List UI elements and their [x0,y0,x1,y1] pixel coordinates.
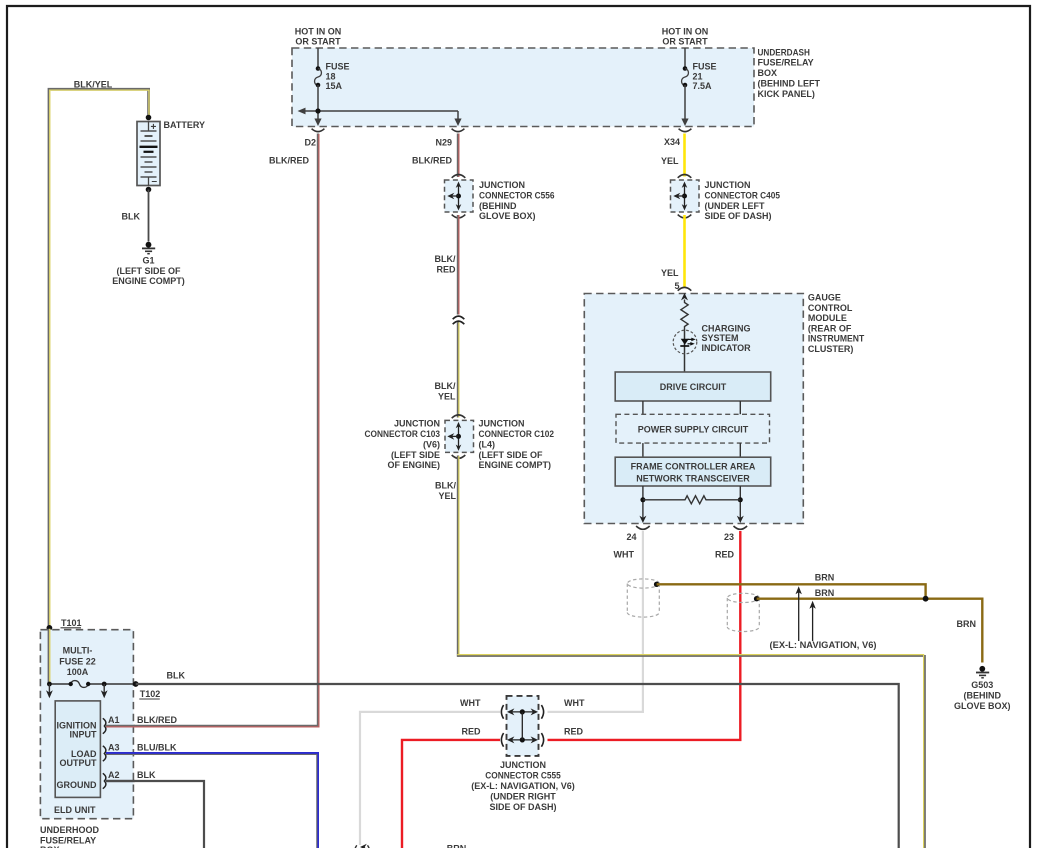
node battery negative terminal [146,187,152,193]
svg-text:SYSTEM: SYSTEM [702,333,739,343]
wire BLK/YEL from inline connector to junction connector C102 [457,322,460,418]
gauge control module box [584,294,803,524]
svg-text:(UNDER LEFT: (UNDER LEFT [705,201,765,211]
svg-text:CONNECTOR C102: CONNECTOR C102 [479,429,555,439]
arrowhead exit 24 [639,516,646,523]
svg-text:BRN: BRN [815,588,835,598]
svg-text:SIDE OF DASH): SIDE OF DASH) [705,211,772,221]
svg-text:FUSE 22: FUSE 22 [59,656,96,666]
terminating resistor between CAN lines [643,496,740,504]
wire YEL from C405 to gauge module pin 5 [683,215,686,287]
svg-text:(BEHIND: (BEHIND [964,691,1002,701]
svg-text:(LEFT SIDE OF: (LEFT SIDE OF [117,266,182,276]
svg-text:ENGINE COMPT): ENGINE COMPT) [479,460,552,470]
arrowhead exit X34 [681,119,688,127]
ground G503 [954,666,1011,711]
wire BLU/BLK stub from pin A3 [106,753,135,754]
svg-text:INPUT: INPUT [70,730,98,740]
wire BRN shield 2 to ground G503 [757,599,983,663]
svg-text:(BEHIND LEFT: (BEHIND LEFT [758,79,821,89]
wire BLK stub from pin A2 [106,780,135,782]
wires power supply to CAN transceiver [642,443,644,457]
node battery positive terminal [146,115,152,121]
connector exit N29 arc [452,129,465,132]
wire BLK/RED from N29 to junction connector C556 [457,134,460,178]
arrow down from bus right [101,684,108,698]
node BRN junction [923,596,929,602]
wire WHT from C555 left then down to page bottom [360,712,500,845]
battery [137,122,160,188]
svg-text:YEL: YEL [661,268,679,278]
svg-text:23: 23 [724,532,734,542]
wire BLK/YEL battery feed [49,89,149,684]
node fuse18 bus junction [315,108,320,113]
wire BLK/RED from C556 down to inline connector [457,215,460,315]
wire BLK/YEL horizontal run to page bottom right [457,655,925,848]
wire WHT pin 24 down to C555 row [548,531,643,712]
pin A2 symbol [103,773,106,788]
svg-text:RED: RED [715,550,735,560]
svg-text:JUNCTION: JUNCTION [394,419,440,429]
wire BLK/RED from D2 down to ELD A1 [106,134,319,727]
svg-text:OR START: OR START [295,36,341,46]
svg-text:18: 18 [326,71,336,81]
svg-text:UNDERHOOD: UNDERHOOD [40,825,100,835]
svg-text:GLOVE BOX): GLOVE BOX) [479,211,536,221]
svg-text:BLK/: BLK/ [435,254,456,264]
node shield 2 drain [754,596,759,601]
svg-text:A3: A3 [108,743,120,753]
svg-text:ELD UNIT: ELD UNIT [54,805,96,815]
svg-text:FUSE: FUSE [326,62,350,72]
svg-text:24: 24 [626,532,636,542]
svg-text:(UNDER RIGHT: (UNDER RIGHT [490,791,556,801]
wire BLK/YEL from C102 down to corner [457,456,460,657]
svg-text:WHT: WHT [564,698,585,708]
svg-text:BLK/RED: BLK/RED [269,156,309,166]
underhood fuse/relay box [40,630,133,819]
label JUNCTION CONNECTOR C405 (UNDER LEFT SIDE OF DASH) [705,180,781,221]
svg-text:HOT IN ON: HOT IN ON [295,27,342,37]
fuse 18 15A [315,48,350,124]
node CAN right [738,497,743,502]
svg-text:MODULE: MODULE [808,313,847,323]
svg-text:21: 21 [693,71,703,81]
wire BLK/RED stub from pin A1 [106,725,135,728]
ELD unit block [55,701,100,798]
svg-text:BLK: BLK [167,670,186,680]
svg-text:JUNCTION: JUNCTION [500,760,546,770]
svg-text:A1: A1 [108,715,120,725]
wire RED from C555 left then down to page bottom [402,740,500,848]
svg-text:100A: 100A [67,667,89,677]
svg-text:CHARGING: CHARGING [702,323,751,333]
label T101 (underlined) [61,618,82,628]
resistor below pin 5 [681,300,688,330]
arrowhead entering pin 5 [681,293,688,300]
svg-text:WHT: WHT [460,698,481,708]
connector exit 24 arc [636,526,650,529]
svg-text:GLOVE BOX): GLOVE BOX) [954,701,1011,711]
svg-text:INSTRUMENT: INSTRUMENT [808,334,865,344]
connector exit 23 arc [734,526,748,529]
wire BLK from A2 right then down to page bottom [106,781,204,848]
label CHARGING SYSTEM INDICATOR [702,323,752,353]
svg-text:G503: G503 [971,680,993,690]
svg-text:BLK/RED: BLK/RED [137,715,177,725]
arrow down from bus left [46,684,53,698]
svg-text:(REAR OF: (REAR OF [808,323,852,333]
multi-fuse 22 element [47,681,136,688]
svg-text:CLUSTER): CLUSTER) [808,344,854,354]
power supply circuit block [616,414,770,443]
connector exit X34 arc [679,129,692,132]
svg-text:+: + [151,122,157,133]
label T102 (underlined) [139,689,160,699]
svg-text:(BEHIND: (BEHIND [479,201,517,211]
wire BLK/YEL segment inside underhood box [48,629,52,684]
wire YEL from X34 to junction connector C405 [683,134,686,177]
svg-text:–: – [152,176,158,187]
svg-text:CONTROL: CONTROL [808,303,853,313]
node T102 [133,681,139,687]
svg-text:OUTPUT: OUTPUT [60,758,98,768]
svg-text:NETWORK TRANSCEIVER: NETWORK TRANSCEIVER [636,474,750,484]
label IGNITION INPUT [57,720,98,739]
label JUNCTION CONNECTOR C102 (L4) (LEFT SIDE OF ENGINE COMPT) [479,419,555,471]
svg-text:BRN: BRN [447,844,467,848]
junction connector C102/C103 [445,415,474,458]
svg-text:(LEFT SIDE: (LEFT SIDE [391,450,440,460]
wire fuse box internal bus with left arrow [298,108,459,124]
shield cylinder around WHT wire [627,579,659,617]
arrowhead exit 23 [737,516,744,523]
frame controller area network transceiver block [615,457,771,486]
pin A3 symbol [103,746,106,761]
svg-text:CONNECTOR C556: CONNECTOR C556 [479,190,555,200]
svg-text:GROUND: GROUND [57,780,97,790]
wire RED pin 23 down to C555 row [548,531,741,740]
svg-text:(EX-L: NAVIGATION, V6): (EX-L: NAVIGATION, V6) [770,640,877,650]
svg-text:OF ENGINE): OF ENGINE) [387,460,440,470]
svg-text:YEL: YEL [661,156,679,166]
option arrow 2 (EX-L) [809,601,815,641]
svg-text:(LEFT SIDE OF: (LEFT SIDE OF [479,450,544,460]
wires CAN transceiver to pins 24 and 23 [642,486,644,521]
inline connector (double arc) [453,316,465,324]
svg-text:BLK/: BLK/ [435,481,456,491]
svg-text:SIDE OF DASH): SIDE OF DASH) [489,802,556,812]
svg-text:X34: X34 [664,137,680,147]
svg-text:DRIVE CIRCUIT: DRIVE CIRCUIT [660,382,727,392]
svg-text:KICK PANEL): KICK PANEL) [758,89,815,99]
svg-text:RED: RED [436,264,456,274]
svg-text:CONNECTOR C103: CONNECTOR C103 [365,429,441,439]
svg-text:BLK/: BLK/ [435,381,456,391]
svg-text:N29: N29 [435,138,452,148]
arrowhead exit D2 [314,119,321,127]
connector entry pin 5 arc [678,287,692,290]
svg-text:T102: T102 [140,689,161,699]
label LOAD OUTPUT [60,749,98,768]
svg-text:FUSE: FUSE [693,62,717,72]
svg-text:FUSE/RELAY: FUSE/RELAY [40,835,96,845]
wire BRN shield 1 to junction [657,584,926,598]
svg-text:7.5A: 7.5A [693,81,713,91]
svg-text:HOT IN ON: HOT IN ON [662,27,709,37]
drive circuit block [615,372,771,401]
wires drive to power supply [642,401,644,414]
svg-text:ENGINE COMPT): ENGINE COMPT) [112,276,185,286]
wire BLU/BLK from A3 right then down to page bottom [106,753,318,848]
svg-text:G1: G1 [142,255,154,265]
shield cylinder around RED wire [727,593,759,631]
svg-text:FUSE/RELAY: FUSE/RELAY [758,58,814,68]
svg-text:(L4): (L4) [479,439,496,449]
svg-text:A2: A2 [108,770,120,780]
svg-text:CONNECTOR C555: CONNECTOR C555 [485,771,561,781]
svg-text:BLK/YEL: BLK/YEL [74,80,113,90]
svg-text:D2: D2 [304,138,316,148]
svg-text:YEL: YEL [438,391,456,401]
svg-text:JUNCTION: JUNCTION [479,419,525,429]
svg-text:WHT: WHT [614,550,635,560]
pin A1 symbol [103,718,106,733]
svg-text:BRN: BRN [815,572,835,582]
svg-text:BATTERY: BATTERY [164,120,206,130]
svg-text:JUNCTION: JUNCTION [479,180,525,190]
junction connector C405 [671,175,700,218]
svg-text:INDICATOR: INDICATOR [702,343,752,353]
fuse 21 7.5A [682,48,717,124]
underdash fuse/relay box [292,48,754,127]
svg-text:15A: 15A [326,81,343,91]
wire to indicator [684,329,686,372]
svg-text:JUNCTION: JUNCTION [705,180,751,190]
svg-text:RED: RED [564,726,584,736]
inline connector at bottom of WHT wire [355,844,370,848]
svg-text:CONNECTOR C405: CONNECTOR C405 [705,190,781,200]
node CAN left [640,497,645,502]
svg-text:(V6): (V6) [423,439,440,449]
svg-text:MULTI-: MULTI- [63,646,93,656]
charging system indicator LED [673,330,697,354]
node T101 [47,625,53,631]
ground G1 [112,242,185,286]
wire BLK battery to ground [148,190,150,242]
svg-text:POWER SUPPLY CIRCUIT: POWER SUPPLY CIRCUIT [638,425,749,435]
svg-text:BOX: BOX [758,68,778,78]
svg-text:BLK/RED: BLK/RED [412,156,452,166]
label UNDERDASH FUSE/RELAY BOX (BEHIND LEFT KICK PANEL) [758,47,821,99]
svg-text:FRAME CONTROLLER AREA: FRAME CONTROLLER AREA [631,461,756,471]
svg-text:T101: T101 [61,618,82,628]
label JUNCTION CONNECTOR C103 (V6) (LEFT SIDE OF ENGINE) [365,419,441,471]
label MULTI-FUSE 22 100A [59,646,96,678]
node shield 1 drain [654,582,659,587]
label JUNCTION CONNECTOR C555 (EX-L: NAVIGATION, V6) (UNDER RIGHT SIDE OF DASH) [471,760,575,812]
svg-text:YEL: YEL [438,491,456,501]
label JUNCTION CONNECTOR C556 (BEHIND GLOVE BOX) [479,180,555,221]
label UNDERHOOD FUSE/RELAY BOX [40,825,100,848]
svg-text:BRN: BRN [957,619,977,629]
svg-text:RED: RED [461,726,481,736]
svg-text:UNDERDASH: UNDERDASH [758,47,810,57]
svg-text:BLU/BLK: BLU/BLK [137,742,177,752]
junction connector C555 [501,696,543,756]
wire BLK from T102 across page and down [136,684,899,848]
svg-text:BLK: BLK [137,770,156,780]
svg-text:OR START: OR START [662,36,708,46]
svg-text:(EX-L: NAVIGATION, V6): (EX-L: NAVIGATION, V6) [471,781,575,791]
svg-text:GAUGE: GAUGE [808,293,841,303]
arrowhead exit N29 [454,119,461,127]
label GAUGE CONTROL MODULE (REAR OF INSTRUMENT CLUSTER) [808,293,865,355]
option arrow 1 (EX-L) [796,586,802,641]
svg-text:BLK: BLK [122,212,141,222]
junction connector C556 [445,175,474,218]
connector exit D2 arc [312,129,325,132]
